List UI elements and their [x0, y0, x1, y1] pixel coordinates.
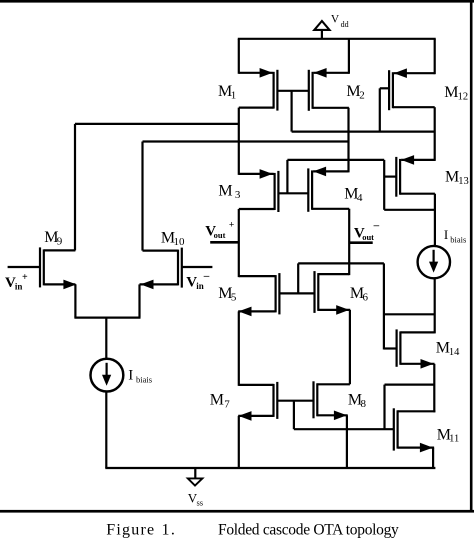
wire M10 source down to tail: [138, 284, 140, 317]
svg-text:4: 4: [357, 192, 363, 204]
svg-text:9: 9: [57, 236, 63, 248]
svg-text:M: M: [445, 168, 459, 185]
svg-text:in: in: [15, 282, 23, 292]
wire M1 drain down to node A: [238, 108, 240, 175]
transistor M6: [315, 271, 351, 315]
wire tail to current source: [105, 318, 107, 360]
current source Ibiais (tail): [91, 359, 124, 392]
wire M9 drain up to node A line: [74, 124, 76, 250]
transistor M12: [380, 68, 435, 110]
wire M14 source down to M11 drain: [433, 364, 435, 413]
label Ibiais (tail): [128, 367, 152, 384]
wire Vdd rail: [238, 38, 436, 40]
node Vout+ tap: [210, 241, 239, 244]
label M11: [437, 426, 459, 444]
transistor M3: [239, 169, 279, 212]
svg-text:10: 10: [174, 236, 186, 248]
label M5: [218, 285, 237, 304]
label M7: [210, 391, 230, 410]
Vss ground symbol: [188, 468, 203, 486]
wire M5/M6 gate bias line: [298, 262, 384, 264]
transistor M14: [384, 329, 435, 368]
transistor M5: [238, 273, 279, 316]
svg-text:2: 2: [359, 90, 365, 102]
wire M2 source to Vdd rail: [348, 39, 350, 74]
svg-text:5: 5: [231, 292, 237, 304]
transistor M10: [140, 248, 213, 290]
wire M7 source to Vss rail: [238, 416, 240, 468]
label M13: [445, 168, 469, 187]
label M1: [218, 83, 236, 102]
wire cascode bias line to M13 gate: [287, 159, 384, 161]
transistor M2: [309, 68, 349, 111]
wire M1 source to Vdd rail: [238, 39, 240, 74]
svg-text:out: out: [214, 230, 226, 240]
label Vin+: [5, 272, 28, 292]
svg-text:14: 14: [449, 347, 460, 358]
transistor M9: [8, 247, 77, 289]
svg-text:I: I: [128, 367, 133, 383]
svg-text:3: 3: [235, 189, 241, 201]
wire mirror gate line to M11: [294, 428, 394, 430]
wire gate drop M7/M8: [293, 401, 295, 430]
wire gate riser to cascode bias line: [286, 160, 288, 193]
svg-text:Folded cascode OTA topology: Folded cascode OTA topology: [218, 521, 399, 538]
label Vss: [188, 490, 203, 507]
wire M9 source down to tail: [74, 284, 76, 317]
label M9: [44, 229, 63, 248]
wire M12 gate/drain diode line: [292, 131, 435, 133]
figure right border: [470, 0, 473, 512]
transistor M4: [308, 167, 349, 212]
current source Ibiais (bias chain): [418, 246, 450, 278]
node Vout- tap: [349, 241, 373, 244]
svg-text:6: 6: [363, 292, 369, 304]
svg-text:in: in: [196, 281, 204, 291]
wire M8 source to Vss rail: [346, 415, 348, 468]
svg-text:dd: dd: [341, 20, 349, 29]
wire M12 source to Vdd rail: [434, 39, 436, 74]
label M2: [346, 83, 364, 102]
label Ibiais (bias chain): [444, 227, 466, 245]
transistor M11: [394, 408, 436, 452]
wire M12 drain down to M13 source: [434, 107, 436, 161]
svg-text:M: M: [444, 84, 458, 101]
svg-text:biais: biais: [136, 375, 152, 385]
svg-text:13: 13: [458, 176, 469, 187]
label Vout+: [205, 220, 234, 240]
wire M11 gate riser: [383, 385, 385, 430]
wire M13 gate-drain tie: [384, 209, 435, 211]
svg-text:7: 7: [224, 398, 230, 410]
wire M11 source to Vss rail: [432, 448, 434, 468]
wire M12 gate vertical: [379, 88, 381, 131]
label M14: [436, 340, 460, 358]
svg-text:ss: ss: [197, 497, 204, 507]
label M10: [161, 230, 185, 249]
wire M13 gate vertical: [383, 160, 385, 210]
figure bottom border: [0, 510, 474, 513]
label M12: [444, 84, 468, 102]
svg-text:biais: biais: [450, 235, 466, 245]
wire M3 drain down to Vout+ node: [238, 209, 240, 277]
svg-text:1: 1: [231, 90, 237, 102]
wire M5-M6 gate wire: [279, 292, 314, 294]
wire tail node bar: [74, 317, 140, 319]
transistor M1: [239, 68, 278, 111]
svg-text:+: +: [229, 220, 234, 230]
svg-text:–: –: [203, 270, 210, 282]
figure top border: [0, 0, 474, 3]
wire gate drop to bias line: [291, 91, 293, 132]
wire M10 drain up to node B line: [141, 142, 143, 251]
svg-text:M: M: [218, 182, 232, 199]
wire bias tie line: [384, 313, 435, 315]
label M8: [348, 392, 367, 411]
label Vin-: [186, 270, 210, 291]
transistor M7: [238, 382, 277, 421]
svg-text:Figure: Figure: [106, 521, 155, 538]
wire gate riser M5/M6: [297, 263, 299, 293]
svg-text:–: –: [373, 219, 380, 231]
transistor M13: [384, 155, 435, 197]
wire M10 drain to node B: [143, 140, 349, 142]
label Vdd: [331, 13, 349, 29]
svg-text:11: 11: [449, 434, 459, 445]
svg-text:8: 8: [361, 398, 367, 410]
wire M7-M8 gate wire: [278, 400, 314, 402]
svg-text:1.: 1.: [162, 521, 177, 538]
label M3: [218, 182, 241, 201]
label M6: [350, 285, 369, 304]
wire M2 drain down to node B: [347, 108, 349, 173]
transistor M8: [314, 381, 350, 420]
wire M13 drain down to current source: [434, 194, 436, 246]
wire M4 drain down to Vout- node: [348, 209, 350, 275]
svg-text:out: out: [362, 232, 374, 242]
wire current source down to M14 drain: [434, 277, 436, 333]
wire M11 gate-drain tie: [385, 384, 435, 386]
label Vout-: [354, 219, 380, 242]
wire Vss rail: [105, 467, 435, 469]
svg-text:+: +: [22, 272, 28, 283]
svg-text:I: I: [444, 227, 448, 242]
Vdd supply symbol: [314, 21, 329, 40]
svg-text:M: M: [210, 391, 224, 408]
wire current source to Vss rail: [105, 391, 107, 468]
wire M6 source down to M8 drain: [349, 310, 351, 384]
wire M5 source down to M7 drain: [238, 311, 240, 386]
svg-text:M: M: [436, 340, 450, 357]
wire M1-M2 gate wire: [278, 90, 309, 92]
label M4: [344, 186, 363, 205]
svg-text:12: 12: [458, 91, 469, 102]
wire M9 drain to node A: [75, 123, 239, 125]
svg-text:V: V: [331, 13, 340, 25]
wire M3-M4 gate wire: [279, 192, 308, 194]
wire bias line down to M14 gate: [383, 263, 385, 349]
